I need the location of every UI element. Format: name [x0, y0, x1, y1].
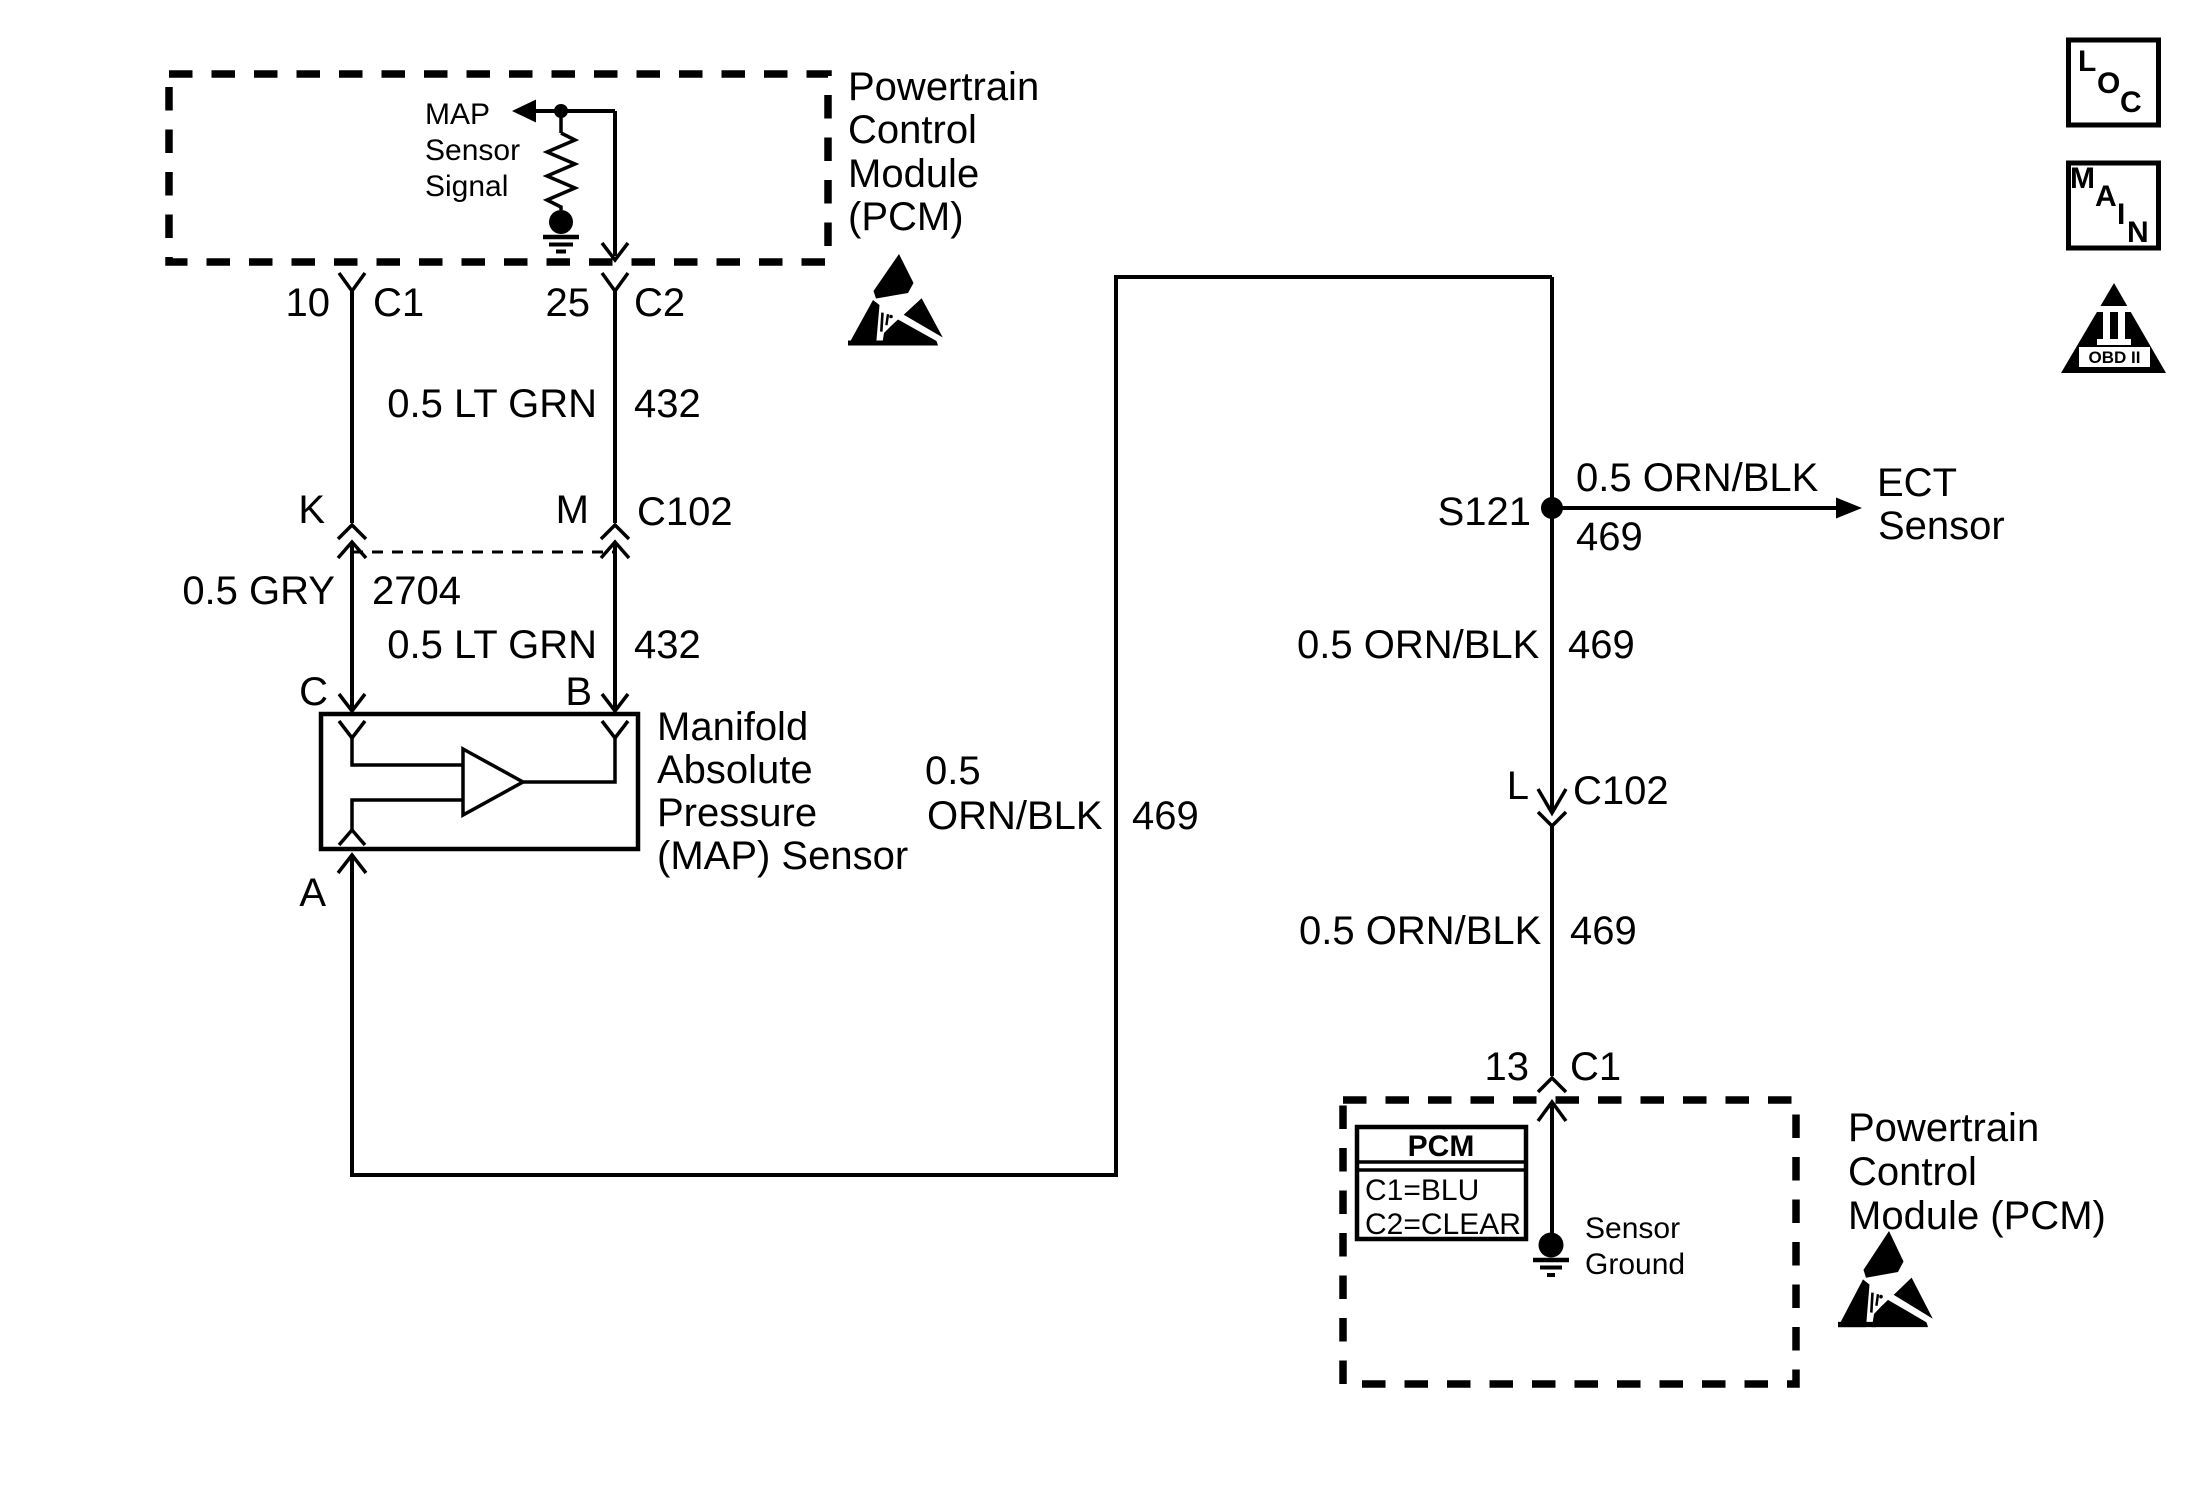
svg-text:C2: C2 [634, 281, 685, 325]
wire (amplifier output to pin B) [521, 737, 615, 782]
svg-text:L: L [1507, 764, 1529, 808]
wire (pin C to amplifier) [352, 737, 463, 765]
svg-text:(MAP) Sensor: (MAP) Sensor [657, 834, 908, 878]
wire (PCM internal to sensor ground) [1550, 1102, 1554, 1236]
svg-text:OBD II: OBD II [2089, 348, 2141, 367]
wire (PCM internal, to pin 25) [534, 109, 615, 113]
wire 0.5 GRY 2704 upper segment (pin10 to C102 K) [350, 291, 354, 523]
svg-text:Ground: Ground [1585, 1248, 1685, 1281]
wire (PCM internal vertical, pin 25) [613, 111, 617, 256]
svg-text:C102: C102 [637, 490, 733, 534]
arrowhead into MAP sensor pin C [339, 694, 365, 711]
svg-text:K: K [298, 488, 325, 532]
connector C102 terminal L [1507, 764, 1669, 826]
svg-text:Control: Control [848, 108, 977, 152]
svg-text:469: 469 [1568, 623, 1635, 667]
svg-text:469: 469 [1576, 515, 1643, 559]
svg-text:Module (PCM): Module (PCM) [1848, 1194, 2106, 1238]
ESD warning symbol (bottom) [1838, 1231, 1933, 1327]
label 0.5 GRY 2704 [182, 569, 461, 613]
svg-text:432: 432 [634, 382, 701, 426]
svg-text:(PCM): (PCM) [848, 195, 964, 239]
svg-text:C1: C1 [1570, 1045, 1621, 1089]
splice S121 [1438, 490, 1563, 534]
wire to ECT Sensor [1552, 506, 1838, 510]
wire (pin A to amplifier) [352, 800, 463, 831]
svg-text:Signal: Signal [425, 170, 508, 203]
svg-text:Powertrain: Powertrain [848, 65, 1039, 109]
PCM module dashed box (bottom right) [1343, 1100, 1796, 1384]
svg-text:Powertrain: Powertrain [1848, 1106, 2039, 1150]
svg-text:Module: Module [848, 152, 979, 196]
wire 0.5 GRY lower segment (K to MAP sensor C) [350, 542, 354, 711]
wire 0.5 ORN/BLK 469 (L to PCM pin 13) [1550, 826, 1554, 1076]
svg-text:13: 13 [1485, 1045, 1530, 1089]
svg-text:A: A [2095, 180, 2117, 213]
svg-text:432: 432 [634, 623, 701, 667]
svg-text:B: B [565, 670, 592, 714]
svg-text:C1: C1 [373, 281, 424, 325]
svg-text:10: 10 [286, 281, 331, 325]
ground (sensor ground, bottom PCM) [1533, 1233, 1569, 1276]
LOC reference box [2069, 40, 2159, 125]
ground (inside PCM, top) [543, 210, 579, 252]
label Sensor Ground [1585, 1212, 1685, 1281]
arrowhead to ECT Sensor [1836, 498, 1862, 519]
wire 0.5 LT GRN lower segment (M to MAP sensor B) [613, 542, 617, 711]
svg-text:A: A [299, 871, 326, 915]
svg-text:C102: C102 [1573, 769, 1669, 813]
MAP sensor internal pin C fork [339, 721, 365, 738]
svg-text:0.5 ORN/BLK: 0.5 ORN/BLK [1576, 456, 1819, 500]
MAP sensor box [321, 714, 638, 849]
svg-text:Absolute: Absolute [657, 748, 813, 792]
svg-text:0.5 ORN/BLK: 0.5 ORN/BLK [1299, 909, 1542, 953]
label Manifold Absolute Pressure (MAP) Sensor [657, 705, 908, 878]
OBD II symbol [2061, 283, 2166, 373]
svg-text:Control: Control [1848, 1150, 1977, 1194]
svg-text:O: O [2097, 67, 2120, 100]
svg-text:C1=BLU: C1=BLU [1365, 1174, 1479, 1207]
svg-text:0.5 LT GRN: 0.5 LT GRN [387, 382, 597, 426]
svg-text:C2=CLEAR: C2=CLEAR [1365, 1208, 1521, 1241]
PCM connector legend box [1357, 1127, 1526, 1241]
connector pin 13 C1 [1485, 1045, 1622, 1092]
svg-text:2704: 2704 [372, 569, 461, 613]
wire 0.5 LT GRN 432 upper segment (pin25 to C102 M) [613, 291, 617, 523]
svg-text:S121: S121 [1438, 490, 1531, 534]
svg-text:N: N [2127, 216, 2149, 249]
arrowhead into PCM pin 13 [1538, 1102, 1566, 1121]
label 0.5 LT GRN 432 (lower) [387, 623, 700, 667]
svg-text:C: C [299, 670, 328, 714]
svg-text:Sensor: Sensor [1585, 1212, 1680, 1245]
PCM module dashed box (top left) [169, 74, 828, 262]
label 0.5 LT GRN 432 (upper) [387, 382, 700, 426]
wire 0.5 ORN/BLK 469 (right vertical, top to L) [1550, 277, 1554, 813]
svg-text:25: 25 [546, 281, 591, 325]
svg-text:ECT: ECT [1877, 461, 1957, 505]
label Powertrain Control Module (PCM) (bottom) [1848, 1106, 2106, 1238]
MAIN reference box [2069, 162, 2159, 249]
svg-text:ORN/BLK: ORN/BLK [927, 794, 1103, 838]
wire 0.5 ORN/BLK 469 (pin A loop: down, right, up, right) [352, 277, 1552, 1175]
node junction dot [554, 104, 568, 118]
svg-text:M: M [2070, 162, 2095, 195]
svg-text:0.5: 0.5 [925, 749, 981, 793]
label Powertrain Control Module (PCM) (top) [848, 65, 1039, 239]
svg-text:C: C [2120, 86, 2142, 119]
MAP sensor internal pin B fork [602, 721, 628, 738]
MAP Sensor Signal label [425, 98, 520, 203]
label ECT Sensor [1877, 461, 2005, 548]
wire (junction to resistor) [559, 111, 563, 133]
connector pin 10 C1 [286, 273, 425, 325]
MAP sensor internal pin A fork [339, 830, 365, 845]
arrowhead at PCM boundary pin 25 [602, 243, 628, 260]
connector C102 dashed tie line [352, 551, 615, 554]
svg-text:PCM: PCM [1408, 1130, 1475, 1163]
svg-text:Sensor: Sensor [425, 134, 520, 167]
connector C102 terminal M [556, 488, 733, 558]
svg-text:Sensor: Sensor [1878, 504, 2005, 548]
svg-text:0.5 GRY: 0.5 GRY [182, 569, 335, 613]
svg-text:Pressure: Pressure [657, 791, 817, 835]
svg-text:469: 469 [1132, 794, 1199, 838]
label 0.5 ORN/BLK 469 (mid loop) [925, 749, 1199, 838]
svg-text:0.5 ORN/BLK: 0.5 ORN/BLK [1297, 623, 1540, 667]
resistor (MAP signal pull-up) [547, 133, 575, 210]
arrowhead into MAP sensor pin A [338, 855, 366, 873]
svg-text:MAP: MAP [425, 98, 490, 131]
svg-text:I: I [2117, 198, 2125, 231]
svg-text:469: 469 [1570, 909, 1637, 953]
arrowhead into MAP sensor pin B [602, 694, 628, 711]
label 0.5 ORN/BLK 469 (upper right run) [1297, 623, 1635, 667]
label 0.5 ORN/BLK 469 (lower right run) [1299, 909, 1637, 953]
svg-text:Manifold: Manifold [657, 705, 808, 749]
connector C102 terminal K [298, 488, 366, 558]
svg-text:0.5 LT GRN: 0.5 LT GRN [387, 623, 597, 667]
svg-text:M: M [556, 488, 589, 532]
svg-text:L: L [2078, 45, 2096, 78]
label 0.5 ORN/BLK 469 (ECT branch) [1576, 456, 1819, 559]
amplifier (MAP sensor) [463, 749, 523, 815]
connector pin 25 C2 [546, 273, 686, 325]
arrow to MAP Sensor Signal [512, 100, 536, 123]
ESD warning symbol (top) [848, 254, 943, 346]
